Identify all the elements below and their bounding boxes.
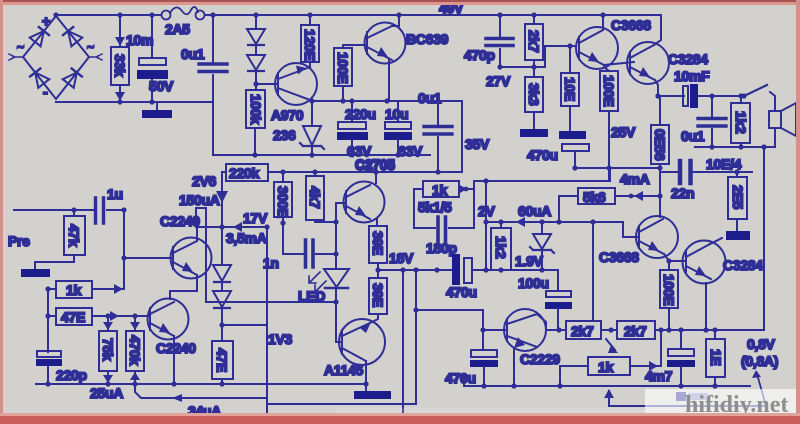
arrow up to rail <box>604 389 614 406</box>
wire bottom y404 <box>267 403 416 405</box>
wire bottom y419 <box>267 418 403 420</box>
svg-text:C2240: C2240 <box>160 213 200 229</box>
node top of bridge <box>53 12 58 17</box>
svg-text:1.9V: 1.9V <box>515 253 544 269</box>
wire top rail center <box>205 14 661 16</box>
resistor 1k feedback <box>45 281 124 298</box>
transistor C3668 upper <box>576 17 651 69</box>
svg-text:470u: 470u <box>527 147 558 163</box>
potentiometer 1k <box>557 330 661 389</box>
transistor C2240 lower <box>148 299 197 357</box>
capacitor 10u <box>384 101 412 158</box>
svg-text:2E5: 2E5 <box>730 185 746 210</box>
wire node to x267 <box>222 324 267 326</box>
wire y302 to x206 <box>206 301 336 303</box>
wire x593 down to C2229 collector area <box>592 222 594 320</box>
transistor C3284 lower <box>683 241 764 284</box>
resistor 300E <box>274 169 292 254</box>
resistor 470k <box>126 313 144 384</box>
wire 2V rail y222 <box>486 221 623 223</box>
wire diode string top x256 <box>255 15 257 29</box>
svg-text:39E: 39E <box>370 231 386 255</box>
svg-text:10E/4: 10E/4 <box>706 156 742 172</box>
wire collector jog to x206 <box>196 208 206 227</box>
svg-text:Pre: Pre <box>8 233 30 249</box>
resistor 39E lower <box>369 278 387 322</box>
wire emitter to C3284u base <box>604 62 634 65</box>
wire 1u to node <box>107 209 124 211</box>
wire C3668l emitter node <box>664 254 669 270</box>
resistor 120E <box>301 12 319 67</box>
svg-text:C2240: C2240 <box>156 340 196 356</box>
svg-text:60uA: 60uA <box>518 203 551 219</box>
resistor 2k7 first <box>566 321 601 339</box>
speaker <box>769 103 796 147</box>
svg-text:1k2: 1k2 <box>493 236 509 259</box>
svg-text:470k: 470k <box>127 335 143 365</box>
svg-text:470p: 470p <box>464 47 495 63</box>
resistor 100E BC639 base <box>334 45 352 101</box>
svg-text:220p: 220p <box>56 367 87 383</box>
wire x483 base column <box>482 310 484 350</box>
wire C2705 emitter to 39E <box>376 219 378 226</box>
wire C2705 collector <box>375 172 377 183</box>
arrow on 17V wire <box>233 222 242 232</box>
capacitor 0u1 35V <box>418 90 452 175</box>
wire 34uA <box>135 384 267 419</box>
svg-text:1k: 1k <box>598 359 613 375</box>
svg-text:100E: 100E <box>601 75 617 107</box>
svg-text:1k: 1k <box>432 182 447 198</box>
svg-text:1V3: 1V3 <box>268 331 293 347</box>
wire C3284u collector <box>654 15 661 45</box>
svg-text:25uA: 25uA <box>90 385 123 401</box>
resistor 3k3 <box>525 67 543 129</box>
resistor 0E56 <box>651 96 669 168</box>
svg-text:1k2: 1k2 <box>733 111 749 134</box>
wire BC639 emitter <box>388 60 390 101</box>
wire base C2240 upper <box>124 257 173 259</box>
resistor 1k feedback <box>414 181 474 198</box>
ground under 3k3 <box>520 129 548 137</box>
svg-text:1k: 1k <box>66 282 81 298</box>
transistor A1145 <box>324 319 385 378</box>
wire left ground rail <box>56 101 213 103</box>
ground under A1145 <box>354 391 391 399</box>
transistor C2229 <box>504 309 560 367</box>
LED <box>298 269 349 304</box>
svg-text:18V: 18V <box>389 250 414 266</box>
wire x764 speaker return <box>763 147 765 330</box>
svg-text:1u: 1u <box>107 186 123 202</box>
wire x486 <box>485 181 487 270</box>
wire x336 base/LED column <box>335 203 337 268</box>
svg-text:100E: 100E <box>335 52 351 84</box>
wire C3284u emitter <box>655 80 658 96</box>
capacitor 180p <box>414 217 474 256</box>
svg-text:5k1/5: 5k1/5 <box>418 199 452 215</box>
svg-text:2k7: 2k7 <box>526 30 542 53</box>
svg-text:33k: 33k <box>112 54 128 77</box>
wire x414 <box>413 189 415 228</box>
svg-text:10E: 10E <box>562 77 578 101</box>
svg-text:A1145: A1145 <box>324 362 363 378</box>
wire A1145 emitter to ground <box>365 361 367 391</box>
resistor 75k <box>99 313 117 384</box>
svg-text:~: ~ <box>87 40 94 54</box>
svg-text:4k7: 4k7 <box>307 186 323 209</box>
wire to A970 base <box>256 83 277 85</box>
svg-text:47k: 47k <box>66 224 82 247</box>
resistor 4k7 <box>306 169 336 222</box>
switch <box>741 85 775 109</box>
capacitor 22n <box>660 161 752 201</box>
resistor 1E <box>706 330 725 389</box>
transistor A970 <box>271 63 317 123</box>
transistor BC639 <box>365 23 449 64</box>
wire emitter link to lower collector <box>170 275 197 299</box>
wire A1145 base <box>336 339 342 342</box>
svg-text:2V: 2V <box>478 203 495 219</box>
svg-text:17V: 17V <box>243 210 268 226</box>
resistor 100E upper <box>600 67 618 181</box>
small cap symbol near watermark <box>676 392 708 401</box>
svg-text:4m7: 4m7 <box>645 368 673 384</box>
wire x474 <box>473 181 475 228</box>
svg-text:75k: 75k <box>100 338 116 361</box>
ground <box>142 102 172 118</box>
wire x206 down <box>205 208 207 302</box>
diode D3 <box>247 29 265 45</box>
svg-text:35V: 35V <box>465 136 490 152</box>
svg-text:0u1: 0u1 <box>181 46 205 62</box>
capacitor 470u feedback <box>446 254 486 300</box>
wire C3668u collector <box>602 15 604 30</box>
resistor 220k <box>222 164 268 181</box>
wire C3284l emitter <box>705 283 707 330</box>
svg-text:300E: 300E <box>275 186 291 218</box>
wire collector C2240u <box>196 227 198 241</box>
resistor 2E5 <box>728 172 747 231</box>
svg-text:3,5mA: 3,5mA <box>226 230 267 246</box>
wire C3668l base from 2V rail <box>623 222 639 237</box>
wire y168 node <box>575 167 660 169</box>
ground under 2E5 <box>726 231 750 240</box>
wire x403 vertical <box>402 270 404 419</box>
wire 27V node <box>500 46 576 67</box>
resistor 33k <box>111 12 129 104</box>
resistor 10E <box>561 43 579 131</box>
capacitor 220p <box>36 351 87 384</box>
wire bottom rail y386 <box>464 374 750 386</box>
svg-text:0u1: 0u1 <box>681 128 705 144</box>
svg-text:100u: 100u <box>518 275 549 291</box>
resistor 1k2 output <box>731 96 750 147</box>
capacitor 1n <box>263 240 336 271</box>
wire 1k2 bottom rail y270 <box>486 269 558 271</box>
svg-text:47E: 47E <box>214 348 230 372</box>
resistor 39E upper <box>369 226 387 278</box>
svg-text:10m: 10m <box>126 32 153 48</box>
wire between <box>255 44 257 55</box>
wire diode to base node <box>255 70 257 90</box>
svg-text:100k: 100k <box>248 94 264 124</box>
svg-text:-: - <box>43 84 48 100</box>
wire 18V node y270 <box>378 269 452 271</box>
svg-text:0E56: 0E56 <box>652 129 668 161</box>
svg-text:2A5: 2A5 <box>165 21 190 37</box>
resistor 100k <box>246 90 265 158</box>
wire between diodes <box>221 281 223 291</box>
wire C2229 base <box>483 329 507 331</box>
resistor 5k6 <box>559 188 660 222</box>
capacitor 10mF output <box>658 68 744 108</box>
wire BC639 collector <box>392 15 399 26</box>
resistor 100E lower <box>660 270 678 333</box>
svg-text:C3284: C3284 <box>668 51 708 67</box>
svg-text:22n: 22n <box>671 185 694 201</box>
wire x610 corner <box>609 168 611 181</box>
resistor 2k7 second <box>617 321 655 339</box>
resistor 1k2 mid <box>491 222 511 270</box>
zener 1.9V <box>515 222 554 270</box>
capacitor 0u1 after fuse <box>181 12 227 155</box>
svg-text:5k6: 5k6 <box>583 189 606 205</box>
svg-text:180p: 180p <box>426 240 457 256</box>
wire 17V collector line <box>196 226 268 228</box>
svg-text:A970: A970 <box>271 107 304 123</box>
transistor C3284 upper <box>627 42 708 84</box>
zener 236 <box>273 101 324 158</box>
transistor C2240 upper <box>160 213 212 279</box>
capacitor 470p <box>464 12 513 69</box>
transistor C2705 <box>344 157 396 223</box>
svg-text:47E: 47E <box>61 309 85 325</box>
diode D2 bias chain <box>213 291 231 308</box>
svg-text:0u1: 0u1 <box>418 90 442 106</box>
wire node down x124 <box>123 210 125 289</box>
wire to C3284l base <box>669 260 685 262</box>
svg-text:150uA: 150uA <box>179 192 220 208</box>
svg-text:C3284: C3284 <box>723 257 763 273</box>
fuse F1 2A5 <box>162 7 205 37</box>
svg-text:~: ~ <box>17 40 24 54</box>
wire C2229 emitter <box>513 348 515 386</box>
svg-text:39E: 39E <box>370 283 386 307</box>
resistor 47k <box>64 207 85 262</box>
wire bias rail y101 <box>312 100 462 102</box>
svg-text:470u: 470u <box>445 370 476 386</box>
annotation arrow to output <box>752 370 766 406</box>
wire 47k to ground <box>35 262 74 269</box>
capacitor 100u <box>518 270 572 330</box>
transistor C3668 lower <box>599 216 678 265</box>
wire A970 collector down <box>310 100 312 101</box>
capacitor C 50V <box>137 12 174 104</box>
svg-text:C2229: C2229 <box>520 351 560 367</box>
svg-text:236: 236 <box>273 127 296 143</box>
wire emitter C2240l to rail <box>173 336 175 384</box>
wire mid ground rail y155 <box>213 154 430 156</box>
wire diode to 47E node <box>221 307 223 341</box>
svg-text:25V: 25V <box>611 124 636 140</box>
wire output row y330 <box>546 329 764 331</box>
capacitor 0u1 zobel <box>681 96 726 147</box>
wire y172 bias rail <box>268 171 462 173</box>
diode D1 bias chain <box>213 265 231 282</box>
wire C2229 collector <box>537 314 546 330</box>
wire BC639 base <box>352 44 367 46</box>
capacitor 470u bottom left <box>445 350 498 389</box>
svg-text:1E: 1E <box>708 349 724 366</box>
wire C2705 base <box>336 202 346 204</box>
svg-text:470u: 470u <box>446 284 477 300</box>
svg-text:+: + <box>42 13 50 29</box>
svg-text:2k7: 2k7 <box>624 323 647 339</box>
svg-text:BC639: BC639 <box>406 31 449 47</box>
resistor 47E bias <box>212 341 233 384</box>
svg-text:4mA: 4mA <box>620 171 650 187</box>
svg-text:1n: 1n <box>263 255 279 271</box>
diode D4 <box>247 55 265 71</box>
capacitor 1u <box>96 186 123 223</box>
wire x416 vertical <box>415 270 417 404</box>
wire x462 right edge of 35V box <box>461 101 463 172</box>
svg-text:0,8V: 0,8V <box>747 336 776 352</box>
svg-text:120E: 120E <box>302 29 318 61</box>
svg-text:2V6: 2V6 <box>192 173 217 189</box>
bridge rectifier BR1 <box>9 13 102 100</box>
wire C3284l collector <box>710 238 722 244</box>
svg-text:3k3: 3k3 <box>526 83 542 106</box>
capacitor 4m7 <box>645 330 695 389</box>
wire y310 to C2229 base <box>416 309 483 311</box>
ground <box>21 269 50 277</box>
wire top rail left <box>56 14 161 16</box>
watermark hifidiy.net <box>336 389 800 420</box>
capacitor 220u <box>337 101 376 158</box>
wire 220k down x222 with current arrow <box>216 172 228 265</box>
resistor 47E input <box>45 308 150 325</box>
svg-text:10u: 10u <box>385 106 408 122</box>
svg-text:220k: 220k <box>229 165 259 181</box>
svg-text:2k7: 2k7 <box>571 323 594 339</box>
svg-text:(0,8A): (0,8A) <box>741 353 778 369</box>
svg-text:10mF: 10mF <box>674 68 710 84</box>
wire input <box>14 209 94 211</box>
svg-text:C2705: C2705 <box>355 156 395 172</box>
wire LED cathode down <box>335 288 337 339</box>
wire y147 output node <box>695 146 775 148</box>
wire x267 long vertical <box>266 227 268 419</box>
svg-text:220u: 220u <box>345 106 376 122</box>
resistor 2k7 top <box>525 12 543 60</box>
capacitor 470u below 10E <box>527 131 589 168</box>
svg-text:C3668: C3668 <box>599 249 639 265</box>
wire y181 <box>474 180 610 182</box>
svg-text:100E: 100E <box>661 274 677 306</box>
wire x660 down to C3668 lower <box>659 168 661 217</box>
wire x48 <box>47 289 49 352</box>
svg-text:C3668: C3668 <box>611 17 651 33</box>
svg-text:63V: 63V <box>398 143 423 159</box>
wire ground rail bottom-left <box>36 383 366 385</box>
svg-text:27V: 27V <box>486 73 511 89</box>
wire y406 lower <box>609 405 767 407</box>
svg-text:50V: 50V <box>149 78 174 94</box>
